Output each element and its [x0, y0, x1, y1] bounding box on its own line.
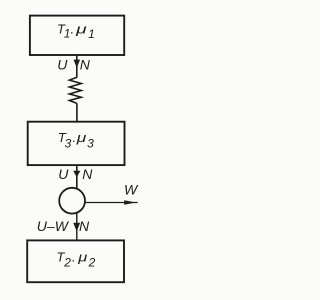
svg-text:N: N [79, 218, 90, 234]
wire top box to resistor [76, 55, 78, 78]
wire resistor to middle box [76, 103, 78, 121]
svg-text:N: N [82, 166, 93, 182]
svg-text:U: U [57, 56, 68, 72]
engine circle [59, 188, 85, 214]
arrowhead down (U,N flow) [74, 60, 81, 68]
reservoir box T3 [28, 122, 125, 165]
arrowhead down [73, 171, 80, 178]
svg-text:U–W: U–W [37, 218, 70, 234]
work output wire [85, 202, 137, 204]
wire middle box to engine circle [76, 165, 78, 189]
arrowhead down [73, 223, 80, 232]
svg-text:W: W [124, 182, 139, 198]
background paper [0, 0, 153, 300]
reservoir box T1 [30, 16, 124, 55]
svg-text:N: N [80, 56, 91, 72]
reservoir box T2 [27, 240, 124, 282]
svg-text:U: U [58, 166, 69, 182]
resistor (thermal resistance) [69, 77, 81, 103]
wire engine to bottom box [76, 213, 78, 240]
arrowhead right [124, 200, 135, 205]
